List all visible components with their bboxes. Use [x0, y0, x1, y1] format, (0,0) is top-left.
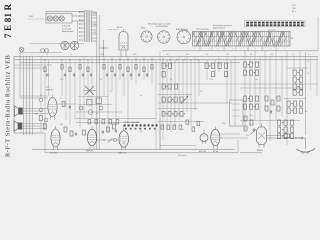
keyboard switch chart band	[193, 32, 291, 47]
svg-text:100: 100	[60, 124, 63, 126]
wire left stub	[14, 52, 48, 133]
wire band drop stubs	[200, 28, 276, 51]
svg-text:Bl. 1: Bl. 1	[292, 11, 296, 13]
wire lamp box top	[46, 12, 84, 14]
wire mid horizontals right	[158, 95, 232, 122]
svg-text:7 E 81 R: 7 E 81 R	[3, 3, 13, 38]
svg-text:0,1: 0,1	[307, 61, 309, 63]
wire tube3-tube4 link	[97, 138, 119, 143]
svg-text:0,1: 0,1	[60, 98, 62, 100]
coil pack far-right lower	[278, 120, 294, 139]
svg-text:500: 500	[255, 79, 258, 81]
wire mains dashed lead-in	[28, 16, 46, 19]
components left of tube V2	[39, 57, 43, 134]
coil pack L5	[162, 84, 185, 102]
svg-text:EZ 80: EZ 80	[117, 27, 123, 29]
svg-text:100: 100	[270, 54, 273, 56]
svg-text:25k: 25k	[226, 54, 229, 56]
svg-text:ECC 83: ECC 83	[199, 151, 207, 153]
speaker LS1	[15, 106, 49, 116]
socket view small A	[61, 41, 69, 49]
wire earth drop	[240, 138, 306, 153]
potentiometer arrow P1	[181, 96, 188, 104]
svg-text:1n: 1n	[308, 54, 310, 56]
svg-text:30: 30	[70, 54, 72, 56]
svg-text:5k: 5k	[292, 54, 294, 56]
lamp La1	[47, 16, 52, 21]
svg-text:8µ: 8µ	[305, 111, 307, 113]
tube V6 EZ80 rectifier	[119, 29, 128, 57]
svg-text:1k: 1k	[130, 79, 132, 81]
tube V7 EM80 magic eye	[257, 124, 267, 153]
svg-text:0,25: 0,25	[46, 86, 49, 88]
svg-text:EL 84: EL 84	[213, 151, 219, 153]
svg-text:gegen Chassis: gegen Chassis	[213, 28, 225, 30]
wire bottom links	[45, 118, 238, 153]
svg-text:5k: 5k	[307, 73, 309, 75]
svg-text:2k: 2k	[96, 113, 98, 115]
wire right top rail	[162, 17, 318, 51]
svg-text:50k: 50k	[186, 54, 189, 56]
svg-text:5n: 5n	[140, 95, 142, 97]
coil pack far-right upper	[287, 68, 308, 95]
svg-text:Skalenlampen: Skalenlampen	[62, 31, 73, 33]
wire right horizontals	[158, 84, 318, 121]
capacitor row C1-C6	[47, 74, 148, 77]
plug socket X1	[19, 47, 24, 52]
tube socket view 3	[176, 28, 191, 44]
lamp La3	[59, 16, 64, 21]
tube V4 EABC80	[118, 128, 129, 155]
svg-text:615 comp: 615 comp	[178, 155, 186, 157]
transformer Tr1 core	[87, 10, 90, 42]
svg-text:50k: 50k	[250, 115, 253, 117]
svg-text:U K M L TA G NF: U K M L TA G NF	[123, 121, 140, 124]
connector pair	[41, 49, 49, 53]
transformer Tr1 primary winding	[85, 10, 87, 42]
label table caption	[196, 25, 232, 31]
svg-text:7/58: 7/58	[292, 8, 296, 10]
wire transformer bottom links	[20, 44, 84, 53]
wire mid-right verticals	[160, 51, 235, 150]
component row mid-right	[162, 112, 185, 117]
component row mid-right 2	[161, 120, 200, 131]
wire right edge vertical	[306, 52, 311, 135]
earth symbol	[297, 149, 316, 154]
switch cross S1	[83, 86, 96, 95]
coil pack far-right middle	[284, 99, 306, 114]
svg-text:3n: 3n	[298, 79, 300, 81]
transformer Tr1 primary taps	[79, 12, 85, 41]
tube V1 ECH81	[50, 126, 60, 155]
tube V3 EABC80	[86, 126, 97, 152]
speaker LS2	[14, 114, 46, 132]
title text Stern-Radio Rochlitz VEB (rotated)	[5, 55, 12, 157]
label lamp values	[62, 25, 73, 34]
wire middle horizontals	[76, 97, 156, 123]
svg-text:EM 80: EM 80	[257, 150, 264, 152]
svg-text:10k: 10k	[210, 79, 213, 81]
svg-text:Röhrenfassungen von unten: Röhrenfassungen von unten	[148, 23, 171, 26]
wire bus C	[20, 62, 240, 64]
label bottom notes	[178, 143, 293, 157]
socket view small B	[70, 41, 78, 49]
svg-text:EBF 89: EBF 89	[86, 151, 94, 153]
svg-text:ECH 81: ECH 81	[46, 90, 54, 92]
svg-text:50: 50	[100, 79, 102, 81]
wire bus B	[14, 59, 318, 61]
IF transformer T3	[205, 63, 228, 77]
wire bus A	[14, 56, 318, 58]
wire lampbox drop	[77, 21, 79, 43]
svg-text:50: 50	[182, 129, 184, 131]
band right sub-box	[269, 36, 293, 44]
svg-text:EABC80 EL84: EABC80 EL84	[176, 28, 188, 31]
svg-text:0,1: 0,1	[46, 54, 48, 56]
coil pack right upper	[244, 62, 259, 75]
svg-text:EZ80: EZ80	[141, 28, 145, 30]
tube socket view 2	[156, 26, 170, 43]
svg-text:· · · · · · · · ·: · · · · · · · · ·	[252, 18, 261, 20]
svg-text:0,05: 0,05	[60, 79, 63, 81]
label switch block	[123, 121, 158, 129]
dial lamp box	[46, 14, 72, 24]
svg-text:0,1: 0,1	[110, 91, 112, 93]
svg-text:1-61: 1-61	[292, 5, 296, 7]
components right of tube V2	[58, 98, 77, 108]
wire left harness	[14, 54, 52, 68]
svg-text:2n: 2n	[170, 79, 172, 81]
junction dots bus	[44, 59, 198, 60]
svg-text:25: 25	[40, 95, 42, 97]
svg-text:2x 7V 0,1A: 2x 7V 0,1A	[62, 27, 72, 30]
component chain bottom left	[44, 118, 117, 136]
svg-text:0,1: 0,1	[140, 131, 142, 133]
wire output line	[267, 134, 306, 139]
label corner note	[292, 5, 296, 13]
wire rectifier anode	[100, 30, 119, 58]
lamp La2	[53, 16, 58, 21]
svg-text:0,5: 0,5	[270, 111, 272, 113]
component chain above tubes	[88, 120, 119, 124]
title text 7E81R (rotated)	[3, 3, 13, 38]
wire bottom bus 1	[32, 148, 235, 150]
wire HT feed vertical pair	[97, 12, 99, 150]
label EZ80	[117, 27, 123, 29]
wire middle vertical drops	[45, 57, 156, 150]
IF transformer T2	[162, 63, 172, 77]
wire tube5 to right cluster	[220, 134, 248, 138]
label scattered values	[40, 54, 310, 137]
svg-text:60: 60	[291, 38, 293, 40]
box filter F1	[230, 100, 244, 126]
wire left cable bundle	[24, 57, 33, 136]
wire bottom bus 2	[45, 152, 238, 154]
wire lamp to transformer	[72, 16, 84, 21]
tube V5a triode circle	[200, 130, 208, 144]
svg-text:0,1: 0,1	[206, 54, 208, 56]
coil box L1	[87, 98, 102, 105]
tube V2 EBF89 IF	[46, 86, 57, 119]
svg-text:~: ~	[292, 143, 293, 145]
transformer Tr1 secondary taps	[91, 12, 97, 41]
tube socket view 1	[141, 28, 152, 43]
svg-text:6,3V 0,3A: 6,3V 0,3A	[62, 25, 71, 28]
svg-text:R-F-T Stern-Radio Rochlitz VEB: R-F-T Stern-Radio Rochlitz VEB	[5, 55, 12, 157]
resistor cluster right-mid	[265, 96, 280, 113]
label socket note	[148, 23, 171, 26]
label band ticks	[194, 48, 287, 50]
svg-text:2k: 2k	[250, 54, 252, 56]
svg-text:Tastenaggregat: Tastenaggregat	[196, 28, 209, 31]
svg-text:ECH81 EBF89: ECH81 EBF89	[156, 26, 168, 28]
resistor row R1-R9	[44, 65, 153, 72]
svg-text:EABC 80: EABC 80	[118, 152, 127, 155]
trimmer C10	[79, 106, 103, 114]
resistor cluster below coils right	[244, 116, 256, 135]
svg-text:25µ: 25µ	[246, 135, 249, 137]
coil pack right lower	[244, 96, 259, 109]
svg-text:~220V: ~220V	[28, 16, 34, 18]
transformer Tr1 secondary winding	[89, 10, 91, 42]
wire right verticals	[245, 51, 317, 145]
tube V5 ECL/EL84	[199, 126, 220, 153]
voltage table	[245, 18, 306, 27]
